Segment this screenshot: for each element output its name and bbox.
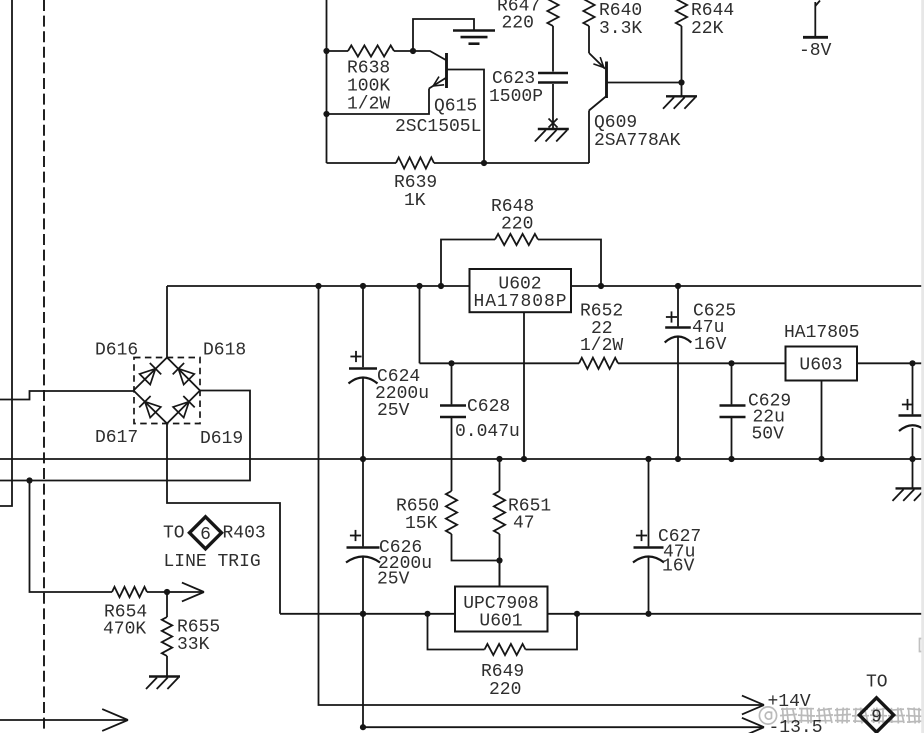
wire AC input left (0, 391, 134, 400)
diode D616 (140, 369, 156, 385)
svg-text:Q609: Q609 (594, 113, 637, 133)
wire Q615 base down (447, 70, 485, 164)
wire Q615 emitter (327, 89, 430, 115)
wire negative rail (280, 613, 455, 615)
wire -13.5 output (363, 726, 764, 728)
x mark (549, 119, 558, 128)
terminal -8V (814, 2, 816, 37)
svg-text:1/2W: 1/2W (580, 336, 623, 356)
capacitor C625 (677, 286, 679, 326)
diode D619 (173, 402, 189, 418)
capacitor C623 (538, 72, 568, 75)
svg-text:16V: 16V (694, 335, 727, 355)
node junction R650/R651 (496, 557, 502, 563)
svg-text:33K: 33K (177, 635, 210, 655)
resistor R654 (112, 587, 147, 597)
ground (slanted) under R655 (149, 675, 180, 677)
resistor R651 (499, 459, 501, 491)
node junction R638 right / Q615 collector (410, 48, 416, 54)
svg-text:TO: TO (866, 673, 888, 693)
node junction emitter-rail (323, 111, 329, 117)
capacitor C624 (362, 286, 364, 367)
svg-text:+14V: +14V (768, 692, 811, 712)
wire dashed page boundary (43, 0, 45, 733)
svg-text:50V: 50V (752, 425, 785, 445)
svg-text:R640: R640 (599, 1, 642, 21)
node junction R638 left (323, 48, 329, 54)
resistor R652 (579, 358, 618, 369)
svg-text:47: 47 (513, 514, 535, 534)
wire +14V output (319, 286, 765, 705)
svg-text:0.047u: 0.047u (455, 422, 520, 442)
wire C623 to ground (552, 84, 554, 129)
svg-text:1/2W: 1/2W (347, 95, 390, 115)
ground (slanted) right edge (912, 459, 914, 488)
node 9 diamond (859, 698, 893, 732)
svg-text:15K: 15K (405, 514, 438, 534)
svg-text:6: 6 (200, 525, 211, 545)
transistor Q609 (605, 62, 608, 99)
svg-text:D619: D619 (200, 429, 243, 449)
svg-text:220: 220 (502, 14, 534, 34)
svg-text:25V: 25V (377, 401, 410, 421)
watermark fragment right edge (920, 639, 924, 652)
node junctions on ground rail (360, 456, 366, 462)
resistor R655 (166, 592, 168, 617)
node junctions on U603 rail (448, 360, 454, 366)
svg-text:-8V: -8V (799, 41, 832, 61)
svg-text:9: 9 (871, 708, 882, 728)
diode D618 (178, 369, 194, 385)
wire arrow to R403 (167, 591, 182, 593)
wire U603 input rail (420, 362, 580, 364)
resistor R638 (327, 50, 349, 52)
resistor R647 (547, 0, 558, 26)
svg-text:R639: R639 (394, 173, 437, 193)
bridge diamond wires (134, 358, 168, 391)
regulator U601 (499, 561, 501, 587)
capacitor C627 (648, 459, 650, 546)
node junction base/R644 (678, 79, 684, 85)
svg-text:U603: U603 (799, 356, 842, 376)
page edge band (921, 0, 924, 733)
wire AC input right (0, 391, 250, 481)
svg-text:R638: R638 (347, 59, 390, 79)
node junction AC/R654 tap (26, 477, 32, 483)
wire U603 ground pin (821, 381, 823, 460)
svg-text:22K: 22K (691, 19, 724, 39)
ground (3-bar) top (453, 29, 495, 32)
ground (slanted) under C623 (538, 128, 569, 130)
svg-text:U601: U601 (479, 612, 522, 632)
resistor R648 (441, 240, 495, 287)
svg-text:Q615: Q615 (434, 97, 477, 117)
capacitor C628 (451, 363, 453, 404)
svg-text:3.3K: 3.3K (599, 19, 642, 39)
svg-text:100K: 100K (347, 77, 390, 97)
svg-text:C623: C623 (492, 69, 535, 89)
svg-text:25V: 25V (377, 570, 410, 590)
svg-text:16V: 16V (662, 557, 695, 577)
wire bridge bottom to negative rail (167, 424, 280, 614)
svg-text:220: 220 (489, 680, 521, 700)
capacitor C626 (362, 459, 364, 546)
watermark (759, 707, 923, 724)
resistor R639 (327, 162, 397, 164)
wire off-page left vertical (0, 0, 12, 506)
svg-text:HA17808P: HA17808P (474, 292, 567, 312)
svg-text:1500P: 1500P (489, 87, 543, 107)
svg-text:R644: R644 (691, 1, 734, 21)
svg-text:D616: D616 (95, 341, 138, 361)
svg-text:220: 220 (501, 215, 533, 235)
node 6 diamond (190, 517, 222, 549)
wire Q615 collector to ground (413, 19, 474, 51)
wire main rail to U603 rail (419, 286, 421, 363)
svg-text:D618: D618 (203, 341, 246, 361)
node junction C626 negative rail (360, 611, 366, 617)
svg-text:LINE TRIG: LINE TRIG (164, 552, 261, 572)
bridge dashed box (134, 358, 200, 424)
node junction R654/R655 (164, 589, 170, 595)
diode D617 (145, 402, 161, 418)
svg-text:1K: 1K (404, 191, 426, 211)
resistor R650 (446, 491, 457, 534)
wire off-page arrow bottom left (0, 719, 128, 721)
capacitor C629 (731, 363, 733, 404)
transistor Q615 (445, 53, 448, 88)
svg-text:2SC1505L: 2SC1505L (395, 117, 481, 137)
resistor R644 (676, 0, 687, 26)
node junctions on negative rail (360, 611, 366, 617)
svg-text:R649: R649 (481, 662, 524, 682)
wire C628 to R650 (451, 418, 453, 491)
node junction base/R639 wire (481, 160, 487, 166)
svg-text:R403: R403 (223, 524, 266, 544)
svg-text:C628: C628 (467, 397, 510, 417)
ground (slanted) under R644 (681, 83, 683, 97)
node junction C626 -13.5 line (360, 724, 366, 730)
resistor R640 (583, 0, 594, 26)
resistor R649 (428, 614, 485, 650)
capacitor right edge (912, 363, 914, 414)
svg-text:-13.5: -13.5 (769, 718, 823, 733)
wire Q609 collector down (588, 111, 590, 164)
regulator U602 (470, 269, 572, 312)
wire R650 to junction (452, 534, 500, 561)
wire ground rail (0, 458, 924, 460)
wire U602 ground pin (523, 312, 525, 459)
svg-text:HA17805: HA17805 (784, 323, 860, 343)
wire rail left of R638 (326, 0, 328, 163)
wire bridge top to main rail (166, 286, 168, 358)
wire Q609 base (607, 82, 682, 84)
svg-text:470K: 470K (103, 620, 146, 640)
node junctions on main rail (315, 283, 321, 289)
wire AC tap down to R654 (30, 481, 113, 593)
wire main unregulated rail (167, 285, 470, 287)
svg-text:D617: D617 (95, 428, 138, 448)
svg-text:TO: TO (163, 524, 185, 544)
svg-text:2SA778AK: 2SA778AK (594, 131, 681, 151)
